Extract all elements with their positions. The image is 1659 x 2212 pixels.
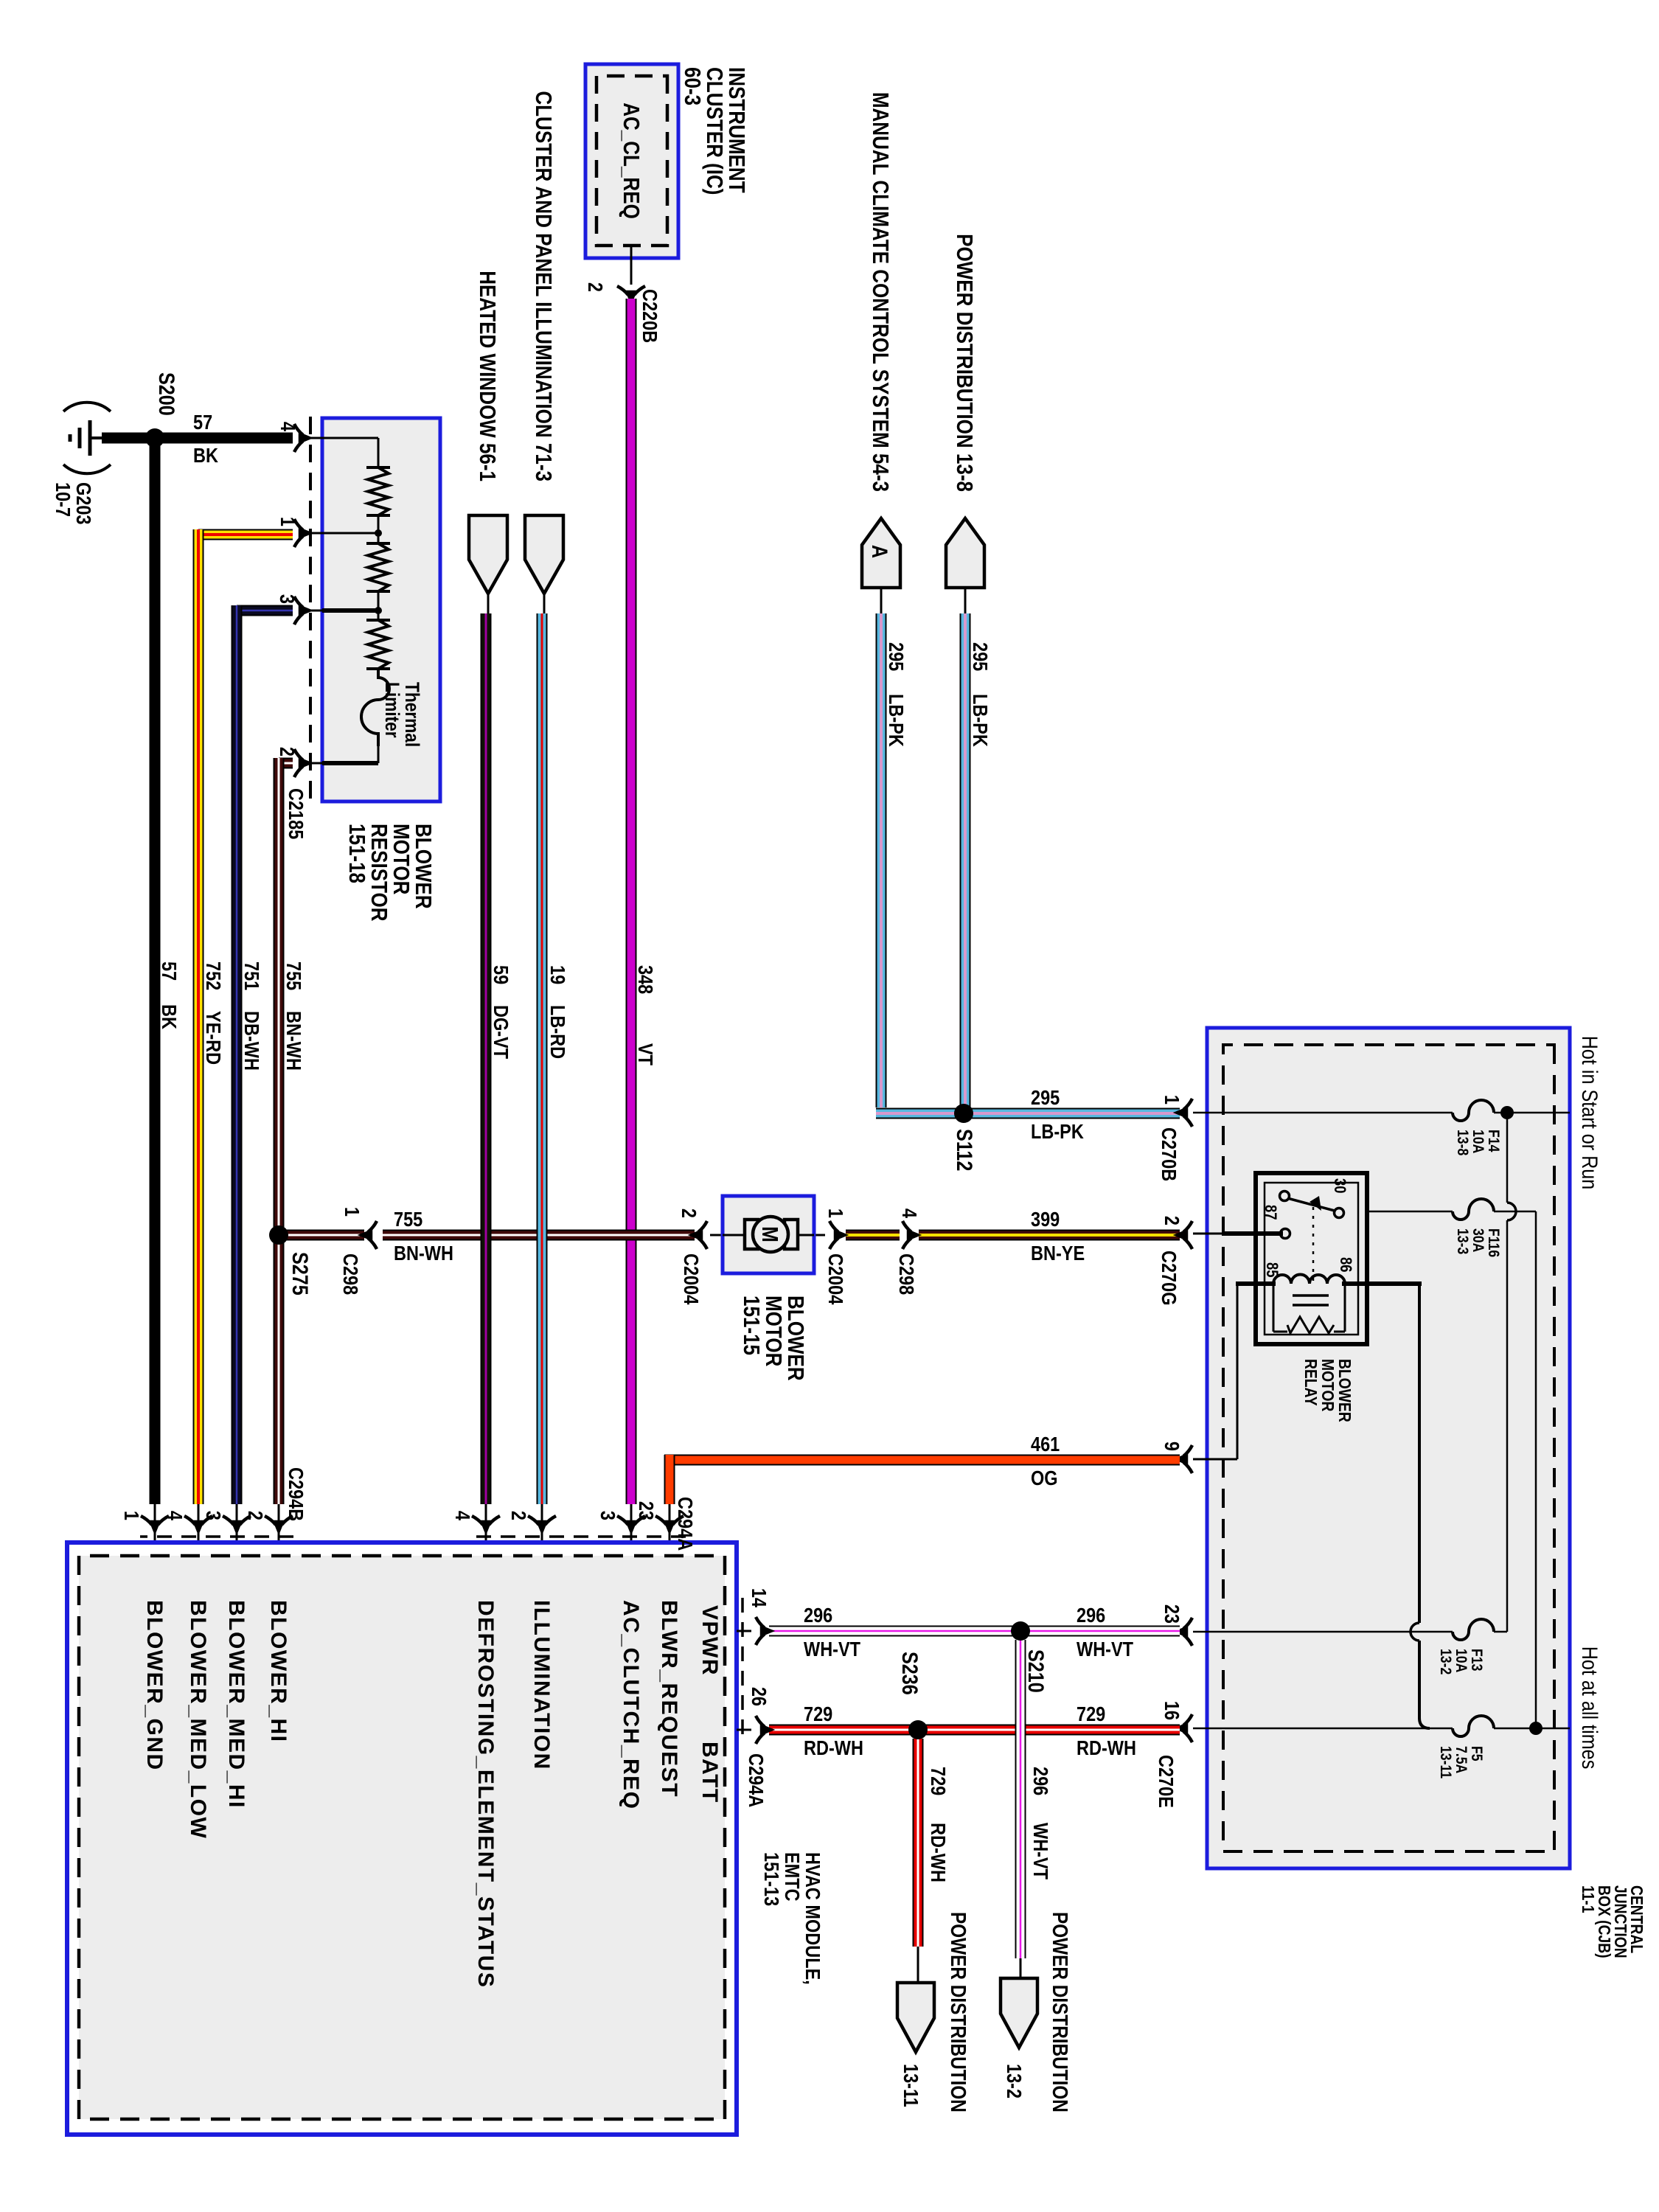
svg-text:2: 2 [276, 747, 298, 757]
motor brush lower [745, 1220, 758, 1249]
off-page connector pentagon (illumination 71-3) [525, 515, 563, 594]
svg-text:295: 295 [885, 642, 907, 671]
svg-text:S210: S210 [1024, 1649, 1049, 1693]
svg-text:C294A: C294A [745, 1753, 767, 1807]
svg-text:461: 461 [1031, 1433, 1060, 1455]
svg-text:13-11: 13-11 [900, 2064, 922, 2107]
motor symbol leads [792, 1234, 814, 1237]
svg-text:1: 1 [824, 1208, 846, 1218]
svg-text:13-11: 13-11 [1437, 1746, 1455, 1778]
svg-text:3: 3 [597, 1511, 619, 1520]
hop of bus over F116 line [1507, 1203, 1516, 1220]
wire 59 DG-VT heated window run [481, 613, 492, 1504]
wire 755 BN-WH from motor to C298 pin1 [383, 1230, 695, 1241]
HVAC pin arrow AC_CLUTCH_REQ [617, 1516, 645, 1533]
svg-text:RD-WH: RD-WH [804, 1737, 863, 1759]
svg-text:19: 19 [546, 965, 568, 984]
svg-text:VPWR: VPWR [698, 1605, 722, 1676]
svg-text:13-3: 13-3 [1454, 1228, 1472, 1254]
svg-text:BLOWER_HI: BLOWER_HI [266, 1600, 291, 1743]
svg-text:POWER DISTRIBUTION: POWER DISTRIBUTION [947, 1912, 970, 2112]
svg-text:DB-WH: DB-WH [240, 1011, 262, 1071]
svg-text:16: 16 [1161, 1701, 1183, 1720]
svg-text:729: 729 [1077, 1703, 1105, 1725]
wire 755 BN-WH from resistor pin2 to HVAC [279, 758, 293, 769]
motor lead stub pin2 [710, 1234, 723, 1237]
connector dashed line C2185 [309, 417, 312, 805]
junction dot F5 supply [1529, 1722, 1543, 1735]
svg-text:POWER DISTRIBUTION 13-8: POWER DISTRIBUTION 13-8 [951, 234, 977, 492]
motor circle with M [753, 1217, 788, 1252]
svg-text:C270B: C270B [1158, 1127, 1180, 1181]
resistor pin 1 arrow [294, 519, 311, 547]
svg-text:2: 2 [1161, 1216, 1183, 1225]
line F116 to relay contact 30 [1342, 1211, 1453, 1213]
svg-text:LB-PK: LB-PK [1031, 1121, 1084, 1143]
wire 296 WH-VT from CJB pin 23 to S210 [1020, 1626, 1180, 1637]
motor lead stub pin1 [814, 1234, 825, 1237]
HVAC pin BATT stub [737, 1729, 751, 1731]
HVAC module box [67, 1543, 737, 2135]
blower motor component box [723, 1196, 814, 1273]
svg-text:296: 296 [1077, 1604, 1105, 1627]
svg-text:9: 9 [1161, 1441, 1183, 1451]
thermal limiter symbol [361, 669, 389, 746]
svg-text:751: 751 [240, 961, 262, 990]
svg-text:2: 2 [507, 1511, 529, 1520]
connector arrow CJB pin 23 [1175, 1618, 1192, 1646]
HVAC pin arrow BLOWER_HI [265, 1516, 293, 1533]
relay armature pivot [1280, 1192, 1290, 1201]
svg-text:S236: S236 [898, 1652, 923, 1695]
splice S210 [1011, 1621, 1030, 1641]
svg-text:348: 348 [634, 965, 656, 994]
svg-text:1: 1 [341, 1207, 363, 1217]
HVAC pin stub ILLUMINATION [541, 1504, 543, 1543]
HVAC pin stub BLOWER_GND [154, 1504, 156, 1543]
wire 295 LB-PK from pentagon A [876, 613, 887, 1107]
splice S112 [954, 1104, 973, 1123]
svg-text:57: 57 [193, 411, 212, 434]
svg-text:151-13: 151-13 [760, 1852, 782, 1906]
resistor series link 1 [378, 515, 380, 543]
connector arrow C298 pin 4 [902, 1221, 919, 1249]
HVAC pin arrow BLOWER_GND [141, 1516, 169, 1533]
svg-text:M: M [757, 1226, 782, 1242]
bus from F14 junction toward F13 [1506, 1113, 1509, 1203]
svg-text:Hot at all times: Hot at all times [1578, 1646, 1603, 1770]
svg-text:LB-PK: LB-PK [885, 694, 907, 747]
svg-text:1: 1 [1161, 1095, 1183, 1105]
wire stub from heated window pentagon [487, 592, 490, 613]
svg-text:A: A [868, 545, 893, 558]
svg-text:BK: BK [158, 1004, 180, 1029]
svg-text:57: 57 [158, 961, 180, 981]
bus from F5 supply to F116 [1535, 1211, 1537, 1728]
relay contact 30 terminal [1335, 1208, 1344, 1218]
svg-text:S200: S200 [155, 372, 180, 416]
HVAC pin arrow BLOWER_MED_HI [223, 1516, 251, 1533]
fuse F13 10A [1453, 1619, 1494, 1640]
relay contact 87 terminal [1281, 1229, 1290, 1239]
svg-text:YE-RD: YE-RD [202, 1011, 224, 1065]
fuse F14 10A [1453, 1100, 1494, 1121]
resistor series link 2 [378, 591, 380, 620]
ground symbol G203 [90, 437, 108, 439]
svg-text:ILLUMINATION: ILLUMINATION [529, 1600, 554, 1770]
svg-text:C298: C298 [339, 1253, 361, 1295]
resistor pin 4 arrow [294, 424, 311, 452]
relay coil rails [1344, 1284, 1346, 1332]
resistor pin stubs through dashed line [307, 437, 322, 439]
svg-text:BN-YE: BN-YE [1031, 1242, 1085, 1265]
svg-text:AC_CLUTCH_REQ: AC_CLUTCH_REQ [619, 1600, 643, 1810]
HVAC pin arrow ILLUMINATION [528, 1516, 556, 1533]
svg-text:POWER DISTRIBUTION: POWER DISTRIBUTION [1048, 1912, 1072, 2112]
svg-text:MOTOR: MOTOR [1318, 1359, 1337, 1411]
central junction box (CJB) outline [1207, 1028, 1570, 1868]
svg-text:13-2: 13-2 [1437, 1649, 1455, 1674]
relay coil to pin85/461 path [1236, 1281, 1276, 1286]
svg-text:295: 295 [1031, 1087, 1060, 1109]
svg-text:755: 755 [394, 1208, 422, 1231]
HVAC pin arrow BLOWER_MED_LOW [184, 1516, 212, 1533]
svg-text:729: 729 [927, 1767, 949, 1795]
fuse F116 30A [1453, 1199, 1494, 1220]
svg-text:HVAC MODULE,: HVAC MODULE, [801, 1852, 824, 1985]
svg-text:C294B: C294B [285, 1467, 307, 1521]
stub to 13-11 pentagon [917, 1947, 919, 1985]
svg-text:HEATED WINDOW 56-1: HEATED WINDOW 56-1 [474, 271, 500, 481]
HVAC pin stub BLWR_REQUEST [669, 1504, 671, 1543]
connector arrow C270G pin 2 [1175, 1221, 1192, 1249]
HVAC pin stub BLOWER_MED_HI [236, 1504, 238, 1543]
off-page connector pentagon (power distribution 13-11) [897, 1983, 934, 2052]
svg-text:151-18: 151-18 [344, 824, 369, 883]
svg-text:752: 752 [202, 961, 224, 990]
HVAC pin stub AC_CLUTCH_REQ [630, 1504, 633, 1543]
svg-text:RD-WH: RD-WH [1077, 1737, 1136, 1759]
svg-text:729: 729 [804, 1703, 832, 1725]
wire 461 OG vertical from CJB pin 9 [664, 1455, 1180, 1466]
HVAC pin VPWR stub [737, 1630, 751, 1632]
connector arrow C270E pin 16 [1175, 1714, 1192, 1742]
svg-text:G203: G203 [72, 482, 94, 525]
svg-text:Thermal: Thermal [401, 682, 423, 747]
blower motor resistor component box [322, 418, 440, 801]
relay coil arcs [1273, 1275, 1345, 1284]
svg-text:C294A: C294A [674, 1497, 696, 1551]
off-page connector pentagon A (manual climate control) [862, 518, 900, 588]
wire 57 BK vertical segment [102, 433, 293, 444]
svg-text:87: 87 [1262, 1205, 1279, 1220]
connector dashed line C294B [140, 1535, 293, 1538]
relay coil core lines [1293, 1294, 1329, 1297]
splice S236 [908, 1720, 928, 1739]
connector arrow CJB pin 9 [1175, 1445, 1192, 1473]
svg-text:BLOWER_GND: BLOWER_GND [142, 1600, 167, 1771]
line F13 to connector pin 23 [1193, 1631, 1453, 1633]
resistor internal link pin2 [378, 746, 380, 763]
wire 296 WH-VT branch from S210 [1015, 1640, 1026, 1958]
wire stub from 13-8 pentagon [964, 588, 967, 613]
svg-text:295: 295 [969, 642, 991, 671]
relay coil feed thick line from F5 output [1342, 1281, 1422, 1286]
svg-text:LB-RD: LB-RD [546, 1005, 568, 1059]
svg-text:CLUSTER AND PANEL ILLUMINATION: CLUSTER AND PANEL ILLUMINATION 71-3 [530, 91, 556, 481]
HVAC pin stub BLOWER_HI [278, 1504, 280, 1543]
off-page connector pentagon (heated window 56-1) [469, 515, 507, 594]
wire 755 BN-WH from C298 pin1 to S275 [279, 1230, 364, 1241]
wire 729 RD-WH from S236 to HVAC BATT [769, 1725, 918, 1736]
svg-text:DG-VT: DG-VT [490, 1005, 512, 1059]
svg-text:BK: BK [193, 445, 218, 467]
HVAC pin stub BLOWER_MED_LOW [198, 1504, 200, 1543]
wire 296 WH-VT from S210 to HVAC VPWR [769, 1626, 1020, 1637]
svg-text:S275: S275 [288, 1252, 313, 1295]
line Hot-at-all-times bus to F116 [1494, 1211, 1536, 1213]
connector dashed line C294A [470, 1535, 686, 1538]
svg-text:C220B: C220B [639, 289, 661, 343]
wire 751 DB-WH from resistor pin3 to HVAC [237, 605, 293, 616]
svg-text:WH-VT: WH-VT [804, 1638, 860, 1660]
wire 729 RD-WH branch from S236 [913, 1739, 924, 1947]
relay pin 87 thick line to C270G [1223, 1231, 1283, 1236]
resistor internal tap pin3 [322, 608, 377, 613]
svg-text:S112: S112 [953, 1129, 978, 1171]
svg-text:C298: C298 [895, 1253, 917, 1295]
wire stub from pentagon A [880, 588, 883, 613]
svg-text:BATT: BATT [698, 1742, 722, 1804]
svg-text:EMTC: EMTC [781, 1852, 803, 1902]
wire 461 OG horizontal to HVAC BLWR_REQUEST [664, 1455, 675, 1504]
line F14 to connector C270B [1193, 1112, 1453, 1114]
svg-text:C2004: C2004 [824, 1253, 846, 1305]
svg-text:2: 2 [678, 1208, 700, 1218]
connector arrow C2004 pin 2 [690, 1221, 707, 1249]
resistor pin 3 arrow [294, 597, 311, 625]
fuse F5 7.5A [1453, 1716, 1494, 1736]
resistor element R-low [368, 620, 389, 669]
svg-text:AC_CL_REQ: AC_CL_REQ [618, 102, 644, 219]
instrument cluster (IC) component box [585, 64, 678, 258]
svg-text:755: 755 [282, 961, 305, 990]
svg-text:RELAY: RELAY [1301, 1359, 1320, 1406]
svg-text:DEFROSTING_ELEMENT_STATUS: DEFROSTING_ELEMENT_STATUS [473, 1600, 498, 1988]
feed line Hot in Start or Run to F14 [1494, 1112, 1570, 1114]
svg-text:MANUAL CLIMATE CONTROL SYSTEM: MANUAL CLIMATE CONTROL SYSTEM 54-3 [867, 92, 893, 492]
svg-text:4: 4 [898, 1208, 920, 1219]
svg-text:C2185: C2185 [285, 788, 307, 839]
svg-text:4: 4 [276, 422, 299, 432]
svg-text:BN-WH: BN-WH [394, 1242, 453, 1265]
svg-text:13-8: 13-8 [1454, 1130, 1472, 1155]
svg-text:Hot in Start or Run: Hot in Start or Run [1578, 1036, 1603, 1190]
svg-text:WH-VT: WH-VT [1077, 1638, 1133, 1660]
svg-text:11-1: 11-1 [1579, 1885, 1597, 1913]
svg-text:151-15: 151-15 [738, 1295, 764, 1355]
feed line Hot at all times to F5 [1494, 1728, 1570, 1730]
splice S275 [269, 1225, 288, 1245]
wire stub from illumination pentagon [543, 592, 546, 613]
hop of coil feed over F13 line [1411, 1623, 1419, 1641]
resistor element R-med [368, 543, 389, 591]
svg-text:399: 399 [1031, 1208, 1060, 1231]
svg-text:RD-WH: RD-WH [927, 1823, 949, 1882]
wire 57 BK horizontal run to HVAC [150, 438, 161, 1504]
relay armature [1287, 1198, 1335, 1211]
line F5 to connector C270E [1193, 1728, 1453, 1730]
svg-text:BN-WH: BN-WH [282, 1011, 305, 1071]
resistor internal feed pin4 [322, 437, 378, 439]
HVAC pin arrow VPWR [756, 1617, 773, 1645]
svg-text:BLOWER: BLOWER [1335, 1359, 1354, 1422]
off-page connector pentagon (power distribution 13-2) [1001, 1978, 1037, 2048]
svg-text:59: 59 [490, 965, 512, 984]
splice S200 [145, 428, 164, 448]
svg-text:C270E: C270E [1155, 1755, 1177, 1808]
svg-text:BLWR_REQUEST: BLWR_REQUEST [657, 1600, 681, 1798]
line bus to F13 fuse [1494, 1631, 1507, 1633]
svg-text:LB-PK: LB-PK [969, 694, 991, 747]
wire 19 LB-RD illumination run [537, 613, 548, 1504]
svg-text:1: 1 [276, 517, 299, 526]
svg-text:14: 14 [748, 1588, 770, 1608]
resistor pin 2 arrow [294, 749, 311, 777]
svg-text:C2004: C2004 [680, 1253, 702, 1305]
svg-text:BLOWER_MED_LOW: BLOWER_MED_LOW [186, 1600, 210, 1839]
resistor element R-high [368, 467, 389, 515]
svg-text:3: 3 [276, 594, 298, 604]
resistor internal tap pin1 [322, 532, 378, 535]
wire stub from IC box to C220B arrow [630, 246, 633, 285]
svg-text:13-2: 13-2 [1003, 2064, 1025, 2098]
svg-text:60-3: 60-3 [679, 67, 705, 105]
svg-text:WH-VT: WH-VT [1029, 1823, 1051, 1879]
svg-text:BLOWER_MED_HI: BLOWER_MED_HI [224, 1600, 248, 1809]
off-page connector pentagon (power distribution 13-8) [946, 518, 984, 588]
relay coil parallel resistor [1287, 1317, 1334, 1333]
relay actuation dotted link [1312, 1207, 1315, 1284]
svg-text:OG: OG [1031, 1467, 1058, 1489]
wire 399 BN-YE from C298 to C2004 [846, 1230, 900, 1241]
HVAC pin arrow BATT [756, 1716, 773, 1744]
svg-text:VT: VT [634, 1043, 656, 1065]
svg-text:4: 4 [451, 1511, 473, 1521]
wire 752 YE-RD from resistor pin1 to HVAC [198, 529, 293, 540]
svg-text:2: 2 [584, 282, 606, 292]
svg-text:1: 1 [120, 1511, 142, 1520]
wire 399 BN-YE from C270G to C298 [919, 1230, 1180, 1241]
svg-text:23: 23 [1161, 1604, 1183, 1624]
connector arrow C270B pin 1 [1175, 1099, 1192, 1127]
connector arrow C220B [617, 286, 645, 303]
wire 729 RD-WH from C270E to S236 [918, 1725, 1180, 1736]
HVAC pin arrow DEFROSTING_ELEMENT_STATUS [472, 1516, 500, 1533]
stub to 13-2 pentagon [1020, 1958, 1022, 1980]
wire 295 LB-PK from 13-8 pentagon to S112 [960, 613, 971, 1107]
svg-text:26: 26 [748, 1687, 770, 1706]
connector arrow C298 pin 1 [360, 1221, 377, 1249]
wire 348 VT horizontal run [626, 299, 637, 1504]
svg-text:Limiter: Limiter [381, 682, 403, 738]
connector dashed line C294A (top) [741, 1598, 744, 1740]
svg-text:86: 86 [1337, 1257, 1354, 1273]
svg-text:296: 296 [1029, 1767, 1051, 1795]
svg-text:C270G: C270G [1158, 1251, 1180, 1305]
connector arrow C2004 pin 1 [829, 1221, 846, 1249]
HVAC pin stub DEFROSTING [485, 1504, 487, 1543]
motor brush upper [785, 1220, 798, 1249]
svg-text:30: 30 [1331, 1178, 1349, 1194]
junction dot at F14 supply [1500, 1106, 1514, 1119]
blower motor relay box [1256, 1173, 1367, 1344]
HVAC pin arrow BLWR_REQUEST [655, 1516, 684, 1533]
wire 295 LB-PK vertical to C270B [876, 1108, 1180, 1119]
svg-text:296: 296 [804, 1604, 832, 1627]
svg-text:10-7: 10-7 [52, 482, 74, 517]
